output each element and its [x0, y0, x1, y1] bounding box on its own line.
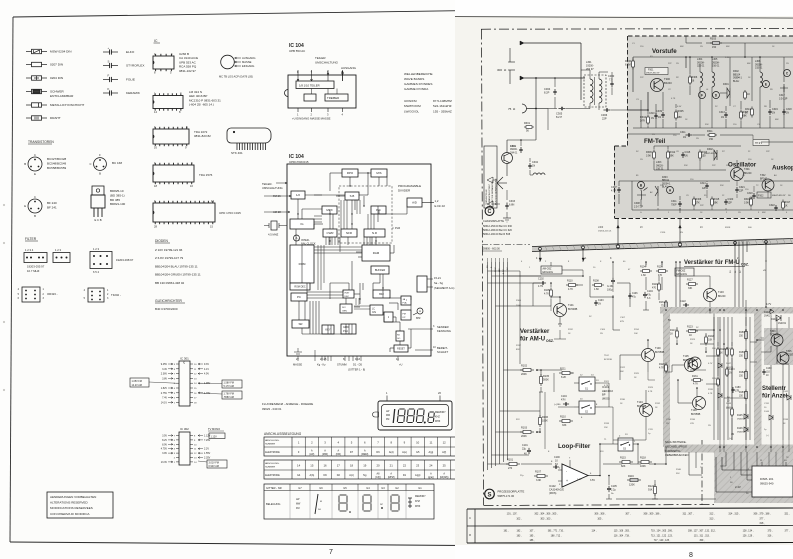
alterations reserved box: [47, 492, 113, 518]
svg-text:377 ,: 377 ,: [784, 531, 789, 533]
svg-text:21: 21: [390, 464, 394, 468]
svg-text:TV MONO: TV MONO: [208, 427, 220, 431]
svg-text:MHZ: MHZ: [415, 505, 421, 508]
svg-text:1K: 1K: [689, 334, 692, 337]
svg-text:19203-216 21: 19203-216 21: [598, 230, 612, 232]
resistor R105 500K: [539, 370, 550, 392]
svg-text:8.2K: 8.2K: [561, 376, 566, 379]
resistor R104 1.6K: [640, 266, 652, 278]
svg-text:15K: 15K: [604, 427, 608, 429]
filter OR323 connector: [18, 287, 58, 302]
loop filter wiring: [488, 370, 667, 499]
svg-text:G5: G5: [416, 451, 420, 454]
transistor BD825 TO-220 package: [91, 186, 126, 222]
svg-text:470: 470: [658, 274, 663, 277]
svg-text:1N: 1N: [532, 165, 535, 168]
svg-text:7: 7: [329, 549, 333, 556]
page 7 paper: [10, 10, 467, 545]
resistor column x727: [720, 347, 741, 402]
block SR: [292, 320, 309, 328]
resistor R120 4.7K: [659, 363, 667, 374]
svg-text:BF 241: BF 241: [47, 206, 57, 210]
svg-text:0.7V: 0.7V: [708, 363, 713, 365]
svg-text:(+)180: (+)180: [554, 404, 561, 406]
svg-text:8: 8: [689, 552, 693, 559]
svg-text:BL50: BL50: [726, 348, 732, 350]
label Verstaerker fuer AM-Uosz: [520, 329, 554, 343]
svg-text:BF240: BF240: [718, 295, 726, 298]
svg-text:4.75V: 4.75V: [161, 448, 168, 451]
svg-text:2.36V: 2.36V: [161, 373, 168, 376]
svg-text:22P: 22P: [660, 185, 664, 187]
block BUFFER: [371, 266, 389, 274]
svg-text:22P: 22P: [712, 165, 716, 167]
svg-text:107 ,: 107 ,: [529, 531, 534, 533]
mid column horizontals: [690, 328, 789, 440]
legend resistor symbol 0207 DIN: [26, 62, 63, 66]
svg-text:9-13: 9-13: [355, 358, 361, 361]
capacitor C311 750P: [671, 196, 682, 213]
resistor R317 1K: [782, 200, 791, 211]
svg-text:UEBERBRUECKEN: UEBERBRUECKEN: [665, 453, 688, 457]
FILTER heading: [25, 237, 38, 241]
svg-text:R112: R112: [568, 329, 574, 331]
resistor R110 4.7K: [566, 276, 583, 291]
svg-text:FM: FM: [403, 313, 406, 315]
legend resistor symbol MSW 0204 DIN: [26, 49, 72, 53]
svg-text:1N: 1N: [680, 232, 683, 234]
svg-text:LC: LC: [372, 309, 375, 311]
resistor R302 BB104: [733, 70, 750, 100]
IC104 UPB553 internal divider box: [296, 81, 334, 89]
svg-text:17: 17: [337, 464, 341, 468]
svg-text:E C B: E C B: [94, 218, 101, 222]
mid column small parts: [712, 347, 791, 420]
bus junctions: [539, 240, 768, 250]
capacitor C305 8.2P: [548, 97, 566, 119]
filter 19203-038 connector: [90, 247, 134, 274]
mid column verticals: [714, 314, 789, 441]
svg-text:FM: FM: [296, 507, 299, 510]
svg-text:IC 301: IC 301: [180, 357, 189, 361]
svg-text:TEILER-: TEILER-: [262, 182, 272, 186]
svg-text:(g(a)): (g(a)): [428, 476, 434, 479]
svg-text:(MOS): (MOS): [549, 492, 557, 495]
svg-text:7.4V: 7.4V: [162, 397, 167, 400]
svg-text:G5: G5: [343, 486, 347, 490]
ground rail Vorstufe: [633, 92, 694, 128]
svg-text:RPO: RPO: [347, 171, 354, 175]
bottom wire number table: [467, 508, 793, 543]
IC104 bottom pin labels: [293, 348, 403, 372]
svg-text:Z 6.8V 19799-107 79: Z 6.8V 19799-107 79: [155, 256, 184, 260]
FM-OSZ EINGANG box: [675, 268, 766, 276]
AM section long wires: [508, 262, 663, 355]
svg-text:MC TB LOS ACP (GA78 L05): MC TB LOS ACP (GA78 L05): [219, 75, 253, 79]
svg-text:19203-038 97: 19203-038 97: [116, 258, 134, 262]
svg-text:S: S: [108, 60, 110, 64]
DIODEN list: [155, 239, 201, 285]
resistor R124 91K: [648, 484, 656, 496]
svg-text:87.5-108MHZ: 87.5-108MHZ: [433, 99, 452, 103]
filter 3-pin connector: [53, 248, 70, 263]
svg-text:A: A: [419, 309, 421, 313]
svg-text:33 V: 33 V: [495, 267, 497, 272]
svg-text:MEMORY: MEMORY: [415, 495, 426, 498]
svg-text:C110: C110: [666, 419, 672, 421]
svg-text:D301: D301: [723, 83, 729, 86]
svg-text:A/D: A/D: [412, 201, 417, 205]
svg-text:10K: 10K: [634, 333, 638, 335]
display wiring: [716, 457, 752, 492]
svg-text:STUMM: STUMM: [337, 363, 347, 367]
svg-text:2.35V: 2.35V: [204, 457, 211, 460]
svg-text:5.6V: 5.6V: [725, 57, 730, 59]
IC104 UPD1703 block diagram outline: [287, 154, 431, 356]
svg-text:270: 270: [508, 467, 513, 470]
svg-text:0831-823 82: 0831-823 82: [194, 134, 211, 138]
svg-text:Verstärker: Verstärker: [520, 329, 550, 335]
signal path hatched band vertical left: [663, 314, 670, 448]
svg-text:4.9V: 4.9V: [204, 373, 209, 376]
pin assignment table 14-26: [264, 460, 464, 479]
capacitor C322: [769, 204, 778, 211]
transistor BF240/BF241 outline: [24, 195, 57, 218]
svg-text:318 ,: 318 ,: [759, 522, 765, 525]
page number 7: [329, 549, 333, 556]
svg-text:C311: C311: [680, 131, 686, 134]
svg-text:58312-186.00 Bei CC 620: 58312-186.00 Bei CC 620: [483, 229, 513, 232]
label Oszillator: [728, 162, 757, 169]
svg-text:68K: 68K: [775, 119, 779, 121]
capacitor C130 L10: [762, 368, 772, 377]
svg-text:(+): (+): [729, 438, 732, 440]
transistor T305 BC548B left: [689, 357, 701, 369]
node B trimmer: [634, 182, 648, 209]
svg-text:GAMME D'ONDA: GAMME D'ONDA: [404, 87, 429, 91]
svg-text:STK 461: STK 461: [231, 151, 243, 155]
Vorstufe extra caps: [649, 107, 792, 121]
Trennstelle separation box: [484, 146, 497, 208]
svg-text:ELEKTRODE: ELEKTRODE: [265, 451, 280, 454]
Vorstufe extra verticals: [641, 57, 784, 128]
svg-text:C316: C316: [660, 232, 666, 234]
block RESET: [394, 345, 408, 352]
svg-text:R140: R140: [676, 469, 682, 471]
label D143 1N4151 right: [764, 309, 774, 317]
svg-text:WAVE BANDS: WAVE BANDS: [404, 77, 424, 81]
svg-text:316 ,: 316 ,: [767, 536, 772, 538]
svg-text:R101: R101: [507, 459, 514, 462]
svg-text:ANSCHLUSSBELEGUNG: ANSCHLUSSBELEGUNG: [264, 432, 302, 436]
svg-text:1K: 1K: [747, 93, 750, 96]
svg-text:T102: T102: [604, 355, 610, 357]
battery note hatched band: [664, 445, 793, 453]
resistor R103 200K: [520, 427, 538, 439]
svg-text:AM: AM: [498, 269, 501, 272]
svg-text:A(c): A(c): [349, 474, 354, 477]
svg-text:SR: SR: [298, 322, 302, 326]
svg-text:1N: 1N: [658, 116, 661, 119]
svg-text:C102: C102: [538, 278, 544, 281]
svg-text:R117: R117: [516, 345, 522, 347]
transistor T300 BF240: [645, 68, 672, 111]
svg-text:4.7K: 4.7K: [708, 393, 713, 395]
svg-text:R109: R109: [657, 266, 663, 269]
svg-text:B40 C3700/2200: B40 C3700/2200: [155, 307, 178, 311]
svg-text:BB104: BB104: [662, 180, 670, 182]
svg-text:MODIFICATIONS RESERVEES: MODIFICATIONS RESERVEES: [50, 506, 93, 510]
capacitor C105 2.2u: [607, 485, 617, 495]
svg-text:KERAMIK: KERAMIK: [126, 91, 141, 95]
svg-text:BC559B: BC559B: [786, 353, 793, 356]
S processor board node: [485, 489, 525, 499]
svg-text:+: +: [566, 479, 568, 483]
svg-text:91K: 91K: [676, 473, 680, 475]
svg-text:WELLENBEREICHE: WELLENBEREICHE: [404, 72, 433, 76]
svg-text:Kg - Ky: Kg - Ky: [317, 363, 326, 367]
svg-text:1K: 1K: [670, 333, 673, 336]
svg-text:R127: R127: [687, 279, 693, 282]
svg-text:1.6K: 1.6K: [594, 288, 599, 291]
grid table digit G2: [380, 495, 399, 511]
svg-text:182 ,: 182 ,: [516, 531, 521, 533]
svg-text:BB104/204 BLAU 19799-135 1: BB104/204 BLAU 19799-135 11: [155, 264, 198, 268]
svg-text:22µ: 22µ: [522, 447, 527, 450]
speckle labels gray block extra: [632, 43, 792, 214]
svg-text:AENDERUNGEN VORBEHALTEN: AENDERUNGEN VORBEHALTEN: [50, 495, 96, 499]
block RAM: [362, 245, 390, 261]
svg-text:300: 300: [497, 68, 502, 72]
svg-text:10K: 10K: [708, 339, 713, 342]
svg-text:1.05V FM: 1.05V FM: [132, 380, 142, 383]
svg-text:O/G: O/G: [372, 312, 376, 314]
svg-text:UMSCHALTUNG: UMSCHALTUNG: [262, 186, 283, 190]
IC package UPD1703 DIP-28: [153, 199, 241, 229]
IC104 UPB553 block diagram: [285, 43, 357, 108]
svg-text:10.7 MHZ: 10.7 MHZ: [27, 269, 40, 273]
svg-text:1N: 1N: [772, 112, 775, 115]
svg-text:BUFFER: BUFFER: [375, 268, 386, 272]
svg-text:186 ,: 186 ,: [529, 540, 534, 542]
legend resistor symbol METALLOXYDSCHICHT: [26, 103, 84, 107]
block IG: [290, 219, 314, 229]
svg-text:717 , 120 , 125 ,: 717 , 120 , 125 ,: [654, 540, 671, 542]
svg-text:309 ,: 309 ,: [699, 540, 704, 542]
resistor R304 2.7K: [640, 109, 649, 125]
svg-text:8.2 P: 8.2 P: [556, 115, 562, 119]
pin assignment table 1-13: [264, 437, 464, 456]
svg-text:22P: 22P: [668, 63, 672, 65]
varicap D301: [720, 83, 730, 106]
block CWR: [323, 229, 337, 237]
svg-text:15-21: 15-21: [434, 276, 441, 280]
stellentransistor hatched block: [764, 328, 793, 365]
svg-text:BC548/BC549: BC548/BC549: [47, 162, 67, 166]
IC104 internal wiring: [296, 172, 417, 352]
svg-text:4.7P: 4.7P: [611, 190, 616, 193]
svg-text:BF240: BF240: [760, 177, 768, 180]
svg-text:WECHSEL (PROG: WECHSEL (PROG: [665, 444, 687, 448]
svg-text:1N4151: 1N4151: [726, 367, 734, 369]
transistor T105 BC548B: [683, 355, 698, 372]
svg-text:9.3V: 9.3V: [204, 363, 209, 366]
svg-text:12P: 12P: [702, 188, 707, 190]
switch S2 IC101: [574, 399, 600, 420]
capacitor G431 100u: [607, 257, 615, 292]
svg-text:BF240: BF240: [664, 81, 672, 85]
svg-text:BLAU: BLAU: [733, 80, 740, 83]
svg-text:BC559B: BC559B: [655, 351, 665, 354]
svg-text:K: K: [108, 87, 110, 91]
svg-text:LW/GO/OL: LW/GO/OL: [404, 109, 419, 113]
resistor ladder right column: [739, 300, 747, 440]
svg-text:522-1611kHZ: 522-1611kHZ: [433, 104, 452, 108]
node A right: [416, 308, 423, 320]
svg-text:1N4151: 1N4151: [726, 407, 734, 409]
svg-text:713 , 121 , 122 , 123 ,: 713 , 121 , 122 , 123 ,: [651, 536, 674, 538]
svg-text:1N: 1N: [598, 303, 601, 305]
svg-text:114 ,: 114 ,: [592, 531, 597, 533]
svg-text:A(g): A(g): [429, 451, 434, 454]
block MPX: [322, 206, 337, 214]
FM amp vertical feed wires: [666, 276, 710, 352]
svg-text:R108: R108: [593, 280, 599, 283]
svg-text:S.B: S.B: [350, 194, 355, 198]
svg-text:R131: R131: [692, 375, 698, 378]
coil L304 L305: [697, 56, 720, 100]
svg-text:306 , 379 , 188 ,: 306 , 379 , 188 ,: [753, 513, 771, 516]
svg-text:G7: G7: [298, 486, 302, 490]
svg-text:181 ,: 181 ,: [503, 531, 508, 533]
block INST DEC: [343, 290, 354, 298]
svg-text:22P: 22P: [700, 205, 704, 207]
svg-text:L300: L300: [598, 227, 604, 229]
oszillator extra parts: [632, 181, 768, 218]
svg-text:AUSGANG: AUSGANG: [341, 66, 357, 70]
grid table digit G4: [363, 495, 371, 511]
svg-text:G2: G2: [395, 486, 399, 490]
svg-text:375 ,: 375 ,: [767, 531, 772, 533]
svg-text:1K: 1K: [720, 352, 723, 354]
svg-text:TH.9 V: TH.9 V: [755, 143, 763, 145]
block A/D: [407, 198, 422, 207]
svg-text:MASSE: MASSE: [242, 60, 252, 64]
label PLR: [392, 226, 400, 230]
resistor R101 270: [506, 459, 520, 471]
svg-text:R305: R305: [678, 110, 685, 113]
svg-text:68K: 68K: [743, 115, 748, 118]
page 8 paper: [455, 16, 793, 545]
svg-text:(MHZ): (MHZ): [388, 476, 395, 479]
svg-text:100µ: 100µ: [607, 288, 613, 291]
svg-text:R123: R123: [687, 326, 693, 329]
svg-text:377 ,: 377 ,: [759, 518, 765, 521]
legend resistor symbol 0204 DIN: [26, 76, 63, 80]
oscillator tank rail: [632, 181, 730, 210]
svg-text:19: 19: [363, 464, 367, 468]
svg-text:G4: G4: [297, 474, 301, 477]
block N.R: [364, 229, 385, 237]
svg-text:STYROFLEX: STYROFLEX: [126, 64, 144, 68]
resistor R127 33K: [686, 279, 698, 291]
svg-text:1 2 3: 1 2 3: [93, 247, 99, 251]
capacitor C313 1N: [719, 106, 728, 128]
svg-text:1.12V: 1.12V: [211, 435, 218, 438]
svg-text:23: 23: [416, 464, 420, 468]
transistor T100 BC559B: [642, 340, 665, 372]
legend capacitor symbol STYROFLEX: [103, 60, 144, 68]
svg-text:(GITTER 1 - 8): (GITTER 1 - 8): [348, 368, 365, 372]
block PIC: [371, 206, 386, 214]
svg-text:D145: D145: [737, 415, 743, 417]
svg-text:GLEICHRICHTER: GLEICHRICHTER: [155, 299, 183, 303]
svg-text:D302: D302: [707, 148, 713, 151]
left margin punch marks: [3, 204, 5, 391]
capacitor C104 47N: [554, 395, 569, 406]
op-amp IC102: [549, 458, 600, 496]
svg-text:.558V AM: .558V AM: [224, 396, 234, 399]
IC302 voltage chart: [161, 427, 224, 465]
Wellenbereiche text block: [404, 72, 452, 113]
block KEY: [322, 325, 334, 334]
legend resistor symbol SCHWER: [26, 89, 74, 98]
svg-text:IC102: IC102: [549, 485, 556, 488]
svg-text:47N: 47N: [561, 398, 566, 401]
svg-text:C: C: [90, 162, 92, 166]
svg-text:INST: INST: [345, 293, 351, 295]
svg-text:TRENNSTELLE: TRENNSTELLE: [486, 189, 488, 205]
svg-text:DP: DP: [380, 504, 384, 506]
svg-text:128 , 134 ,: 128 , 134 ,: [743, 531, 754, 533]
svg-text:150: 150: [709, 138, 714, 141]
svg-text:22P: 22P: [640, 77, 644, 79]
resistor R307 68K: [740, 101, 749, 128]
svg-text:für AM-U: für AM-U: [520, 337, 545, 343]
svg-text:R114: R114: [634, 329, 640, 331]
label programmable divider: [398, 184, 421, 192]
svg-text:C106: C106: [632, 293, 638, 295]
svg-text:47µ: 47µ: [632, 296, 637, 298]
capacitor C304 8.2P: [544, 77, 557, 95]
transistor BC168 outline: [90, 153, 123, 176]
block DIV GEN: [340, 304, 352, 313]
svg-text:UPD 1703 C015: UPD 1703 C015: [219, 211, 241, 215]
svg-text:R116: R116: [628, 475, 634, 478]
svg-text:UKW/FM: UKW/FM: [404, 99, 417, 103]
block PC: [291, 293, 307, 301]
resistor R309 3.9K: [646, 146, 655, 170]
wire numbers row 1: [507, 513, 790, 526]
svg-text:3.9K: 3.9K: [646, 155, 651, 158]
capacitor C303 6.8N: [505, 190, 515, 218]
svg-text:MW: MW: [296, 503, 301, 506]
dashed programmable divider boundary: [339, 186, 392, 243]
svg-text:131 , 311 , 313 ,: 131 , 311 , 313 ,: [694, 536, 711, 538]
svg-text:BC548B: BC548B: [770, 333, 779, 336]
node C chassis: [483, 207, 513, 236]
svg-text:3.5-13P: 3.5-13P: [779, 97, 788, 100]
svg-text:6 5 4: 6 5 4: [93, 270, 99, 274]
svg-text:R104: R104: [640, 266, 646, 269]
FM block bottom wires: [632, 208, 793, 210]
resistor R131 75: [659, 300, 667, 310]
svg-text:11: 11: [429, 441, 432, 445]
svg-text:MSW 0204 DIN: MSW 0204 DIN: [50, 50, 72, 54]
transistor T106 BC559B: [691, 397, 706, 417]
AM area extra wires: [488, 262, 681, 307]
svg-text:1 2 3 4: 1 2 3 4: [25, 248, 34, 252]
